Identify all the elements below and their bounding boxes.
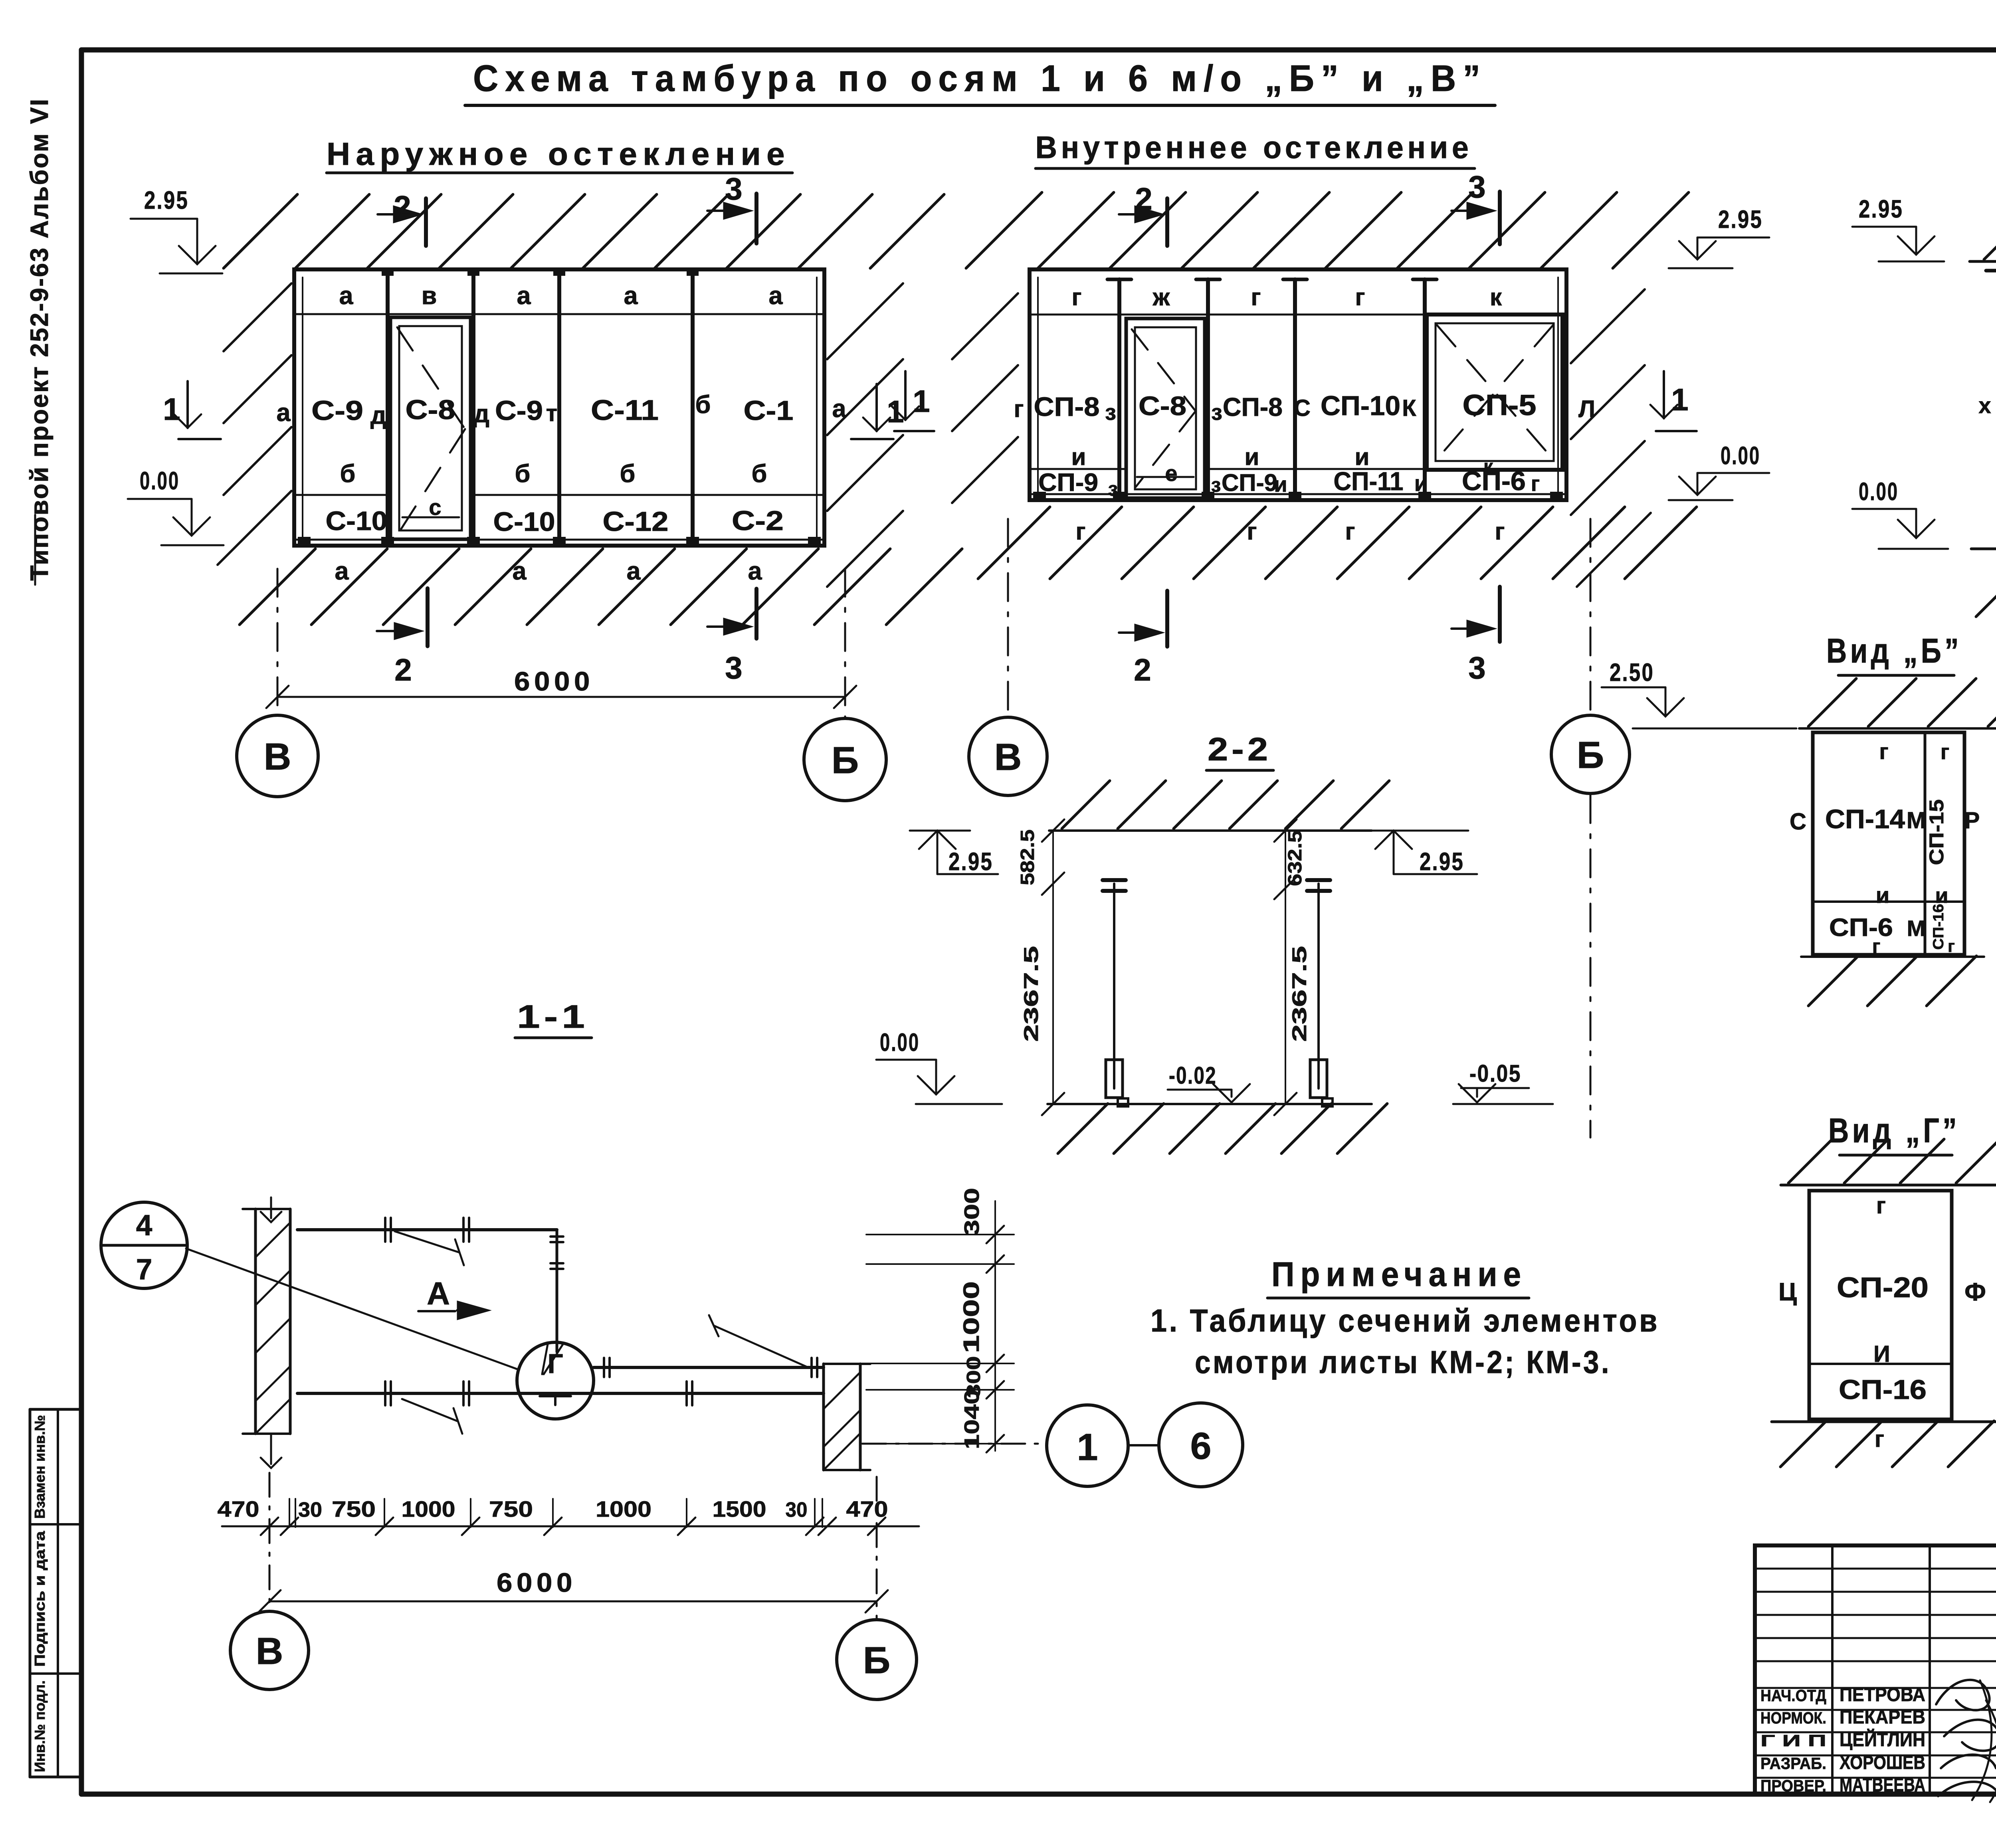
svg-text:г: г — [1355, 284, 1365, 311]
svg-text:г: г — [1076, 518, 1086, 545]
door C-8 outer — [390, 317, 471, 539]
section mark 1 left — [186, 381, 189, 428]
axis circle B top — [804, 718, 886, 801]
svg-text:а: а — [748, 557, 762, 585]
axis circle 1 — [1047, 1405, 1128, 1486]
svg-text:1: 1 — [1077, 1426, 1098, 1468]
inner door C-8 inner frame — [1135, 327, 1196, 489]
plan axis line B — [876, 1477, 878, 1619]
2-2 elevation 2.95 right — [1366, 830, 1468, 832]
svg-text:а: а — [626, 557, 641, 585]
svg-text:В: В — [994, 736, 1022, 778]
svg-text:и: и — [1274, 473, 1287, 497]
svg-text:а: а — [832, 395, 846, 423]
svg-text:В: В — [264, 736, 291, 778]
svg-text:С-8: С-8 — [406, 394, 455, 425]
svg-text:С-11: С-11 — [591, 395, 659, 426]
svg-text:0.00: 0.00 — [1859, 478, 1899, 506]
svg-text:2: 2 — [1134, 652, 1151, 687]
svg-text:2.95: 2.95 — [948, 848, 993, 876]
svg-text:-0.05: -0.05 — [1469, 1060, 1521, 1087]
plan axis circle V — [230, 1611, 309, 1690]
svg-text:В: В — [256, 1630, 283, 1672]
svg-text:СП-9: СП-9 — [1038, 469, 1098, 497]
svg-text:2.95: 2.95 — [144, 186, 189, 214]
svg-text:750: 750 — [332, 1496, 376, 1522]
svg-text:СП-14: СП-14 — [1825, 804, 1905, 834]
svg-text:632.5: 632.5 — [1285, 830, 1306, 886]
svg-text:Схема тамбура по осям 1 и 6 м/: Схема тамбура по осям 1 и 6 м/о „Б” и „В… — [473, 57, 1487, 99]
svg-text:470: 470 — [846, 1496, 888, 1522]
plan lower glazing line — [297, 1392, 824, 1395]
svg-text:а: а — [276, 399, 291, 427]
inner glazing wall hatch right — [1571, 289, 1651, 587]
svg-text:з: з — [1108, 478, 1118, 500]
svg-text:РАЗРАБ.: РАЗРАБ. — [1760, 1754, 1826, 1773]
svg-text:смотри листы КМ-2; КМ-3.: смотри листы КМ-2; КМ-3. — [1195, 1344, 1611, 1380]
svg-text:1500: 1500 — [713, 1496, 766, 1522]
svg-text:г: г — [1251, 284, 1261, 311]
svg-text:а: а — [517, 282, 531, 310]
2-2 ceiling line — [1049, 829, 1372, 832]
svg-text:1: 1 — [163, 392, 180, 427]
svg-text:е: е — [1165, 461, 1177, 486]
inner glazing mullions — [1117, 279, 1121, 499]
title block signatures scribble — [1936, 1680, 1996, 1796]
axis lines inner glazing — [1007, 519, 1009, 716]
title block left table lines — [1755, 1568, 1996, 1570]
view B frame — [1813, 732, 1964, 955]
plan axis line V — [269, 1473, 271, 1611]
svg-text:г: г — [1879, 739, 1888, 764]
svg-text:1000: 1000 — [402, 1496, 455, 1522]
svg-text:Примечание: Примечание — [1271, 1255, 1527, 1294]
outer glazing top transom line — [294, 313, 824, 315]
svg-text:1: 1 — [887, 394, 904, 429]
view A ceiling line — [1970, 260, 1996, 263]
door C-8 swing dashes — [397, 327, 465, 529]
leader 4/7 to node G — [186, 1248, 517, 1369]
svg-text:г: г — [1072, 284, 1082, 311]
svg-text:т: т — [546, 400, 557, 426]
svg-text:30: 30 — [298, 1498, 322, 1522]
plan axis circle B — [837, 1620, 917, 1700]
svg-text:1-1: 1-1 — [517, 999, 589, 1035]
view B ceiling hatch — [1808, 679, 1996, 726]
svg-text:ж: ж — [1152, 284, 1170, 311]
svg-text:г: г — [1948, 937, 1955, 956]
view A ceiling hatch — [1984, 206, 1996, 259]
inner glazing frame — [1030, 269, 1566, 500]
svg-text:з: з — [1211, 474, 1221, 496]
plan upper right leader — [715, 1326, 806, 1367]
svg-text:2-2: 2-2 — [1208, 731, 1271, 768]
outer glazing mullion feet — [298, 537, 311, 546]
svg-text:Р: Р — [1964, 807, 1980, 833]
svg-text:г: г — [1875, 1426, 1884, 1452]
svg-text:750: 750 — [489, 1496, 533, 1522]
svg-text:а: а — [768, 282, 783, 310]
svg-text:СП-10: СП-10 — [1321, 390, 1400, 421]
svg-text:б: б — [620, 460, 636, 488]
axis circle B inner — [1551, 715, 1630, 793]
node G circle — [517, 1342, 594, 1419]
svg-text:к: к — [1483, 456, 1493, 477]
svg-text:М: М — [1907, 916, 1926, 941]
window SP-5 frame — [1427, 315, 1562, 470]
svg-text:а: а — [335, 557, 349, 585]
axis line below B inner — [1590, 795, 1592, 1138]
svg-text:а: а — [339, 282, 353, 310]
inner door C-8 swing dashes — [1132, 329, 1196, 487]
2-2 elevation 2.95 left — [910, 830, 970, 832]
svg-text:С-9: С-9 — [311, 395, 363, 426]
svg-text:Б: Б — [863, 1639, 890, 1682]
svg-text:С-2: С-2 — [732, 505, 784, 536]
axis lines outer glazing — [277, 569, 279, 714]
svg-text:а: а — [624, 282, 638, 310]
view B floor hatch — [1808, 956, 1976, 1006]
svg-text:х: х — [1978, 393, 1991, 418]
svg-text:и: и — [1355, 443, 1370, 470]
svg-text:2.95: 2.95 — [1859, 195, 1903, 223]
svg-text:б: б — [340, 460, 356, 488]
svg-text:МАТВЕЕВА: МАТВЕЕВА — [1840, 1775, 1925, 1796]
title block outline — [1755, 1545, 1996, 1794]
view G ceiling hatch — [1788, 1139, 1996, 1183]
section mark 2 bottom — [426, 588, 430, 646]
inner glazing wall hatch bottom — [978, 507, 1697, 579]
door C-8 inner frame — [399, 326, 462, 530]
svg-text:2: 2 — [394, 189, 411, 224]
svg-text:1. Таблицу сечений элементов: 1. Таблицу сечений элементов — [1150, 1303, 1659, 1338]
svg-text:С-1: С-1 — [744, 395, 794, 426]
svg-text:С-10: С-10 — [326, 506, 388, 536]
inner section mark 2 top — [1165, 198, 1169, 246]
view B floor line — [1801, 956, 1984, 958]
svg-text:И: И — [1873, 1341, 1890, 1367]
svg-text:з: з — [1105, 400, 1116, 425]
2-2 right strut — [1317, 884, 1320, 1088]
svg-text:г: г — [1495, 518, 1505, 545]
svg-text:СП-5: СП-5 — [1463, 389, 1537, 421]
inner glazing wall hatch left — [952, 293, 1018, 503]
inner glazing wall hatch top — [966, 192, 1689, 268]
left sidebar boxes — [29, 1409, 32, 1777]
svg-text:и: и — [1876, 882, 1889, 908]
svg-text:б: б — [752, 460, 767, 488]
inner section mark 1 left — [904, 371, 907, 420]
axis circle V inner — [969, 717, 1047, 795]
svg-text:1: 1 — [913, 384, 930, 419]
svg-text:С-9: С-9 — [495, 395, 543, 426]
plan upper right glazing line — [594, 1366, 824, 1369]
svg-text:Внутреннее остекление: Внутреннее остекление — [1036, 130, 1473, 165]
svg-text:2: 2 — [1135, 181, 1152, 216]
svg-text:и: и — [1245, 443, 1259, 470]
svg-text:Типовой проект 252-9-63 Альбом: Типовой проект 252-9-63 Альбом VI — [26, 98, 53, 581]
window SP-5 opening dashes — [1437, 325, 1553, 459]
plan outer glazing leader — [395, 1231, 459, 1252]
svg-text:СП-15: СП-15 — [1925, 799, 1948, 865]
plan lower glazing leader — [402, 1399, 458, 1421]
svg-text:Инв.№ подл.: Инв.№ подл. — [32, 1680, 48, 1772]
svg-text:1040: 1040 — [960, 1389, 984, 1449]
axis circle B(V) top — [237, 715, 318, 797]
inner section mark 3 bottom — [1498, 587, 1502, 642]
svg-text:Взамен инв.№: Взамен инв.№ — [32, 1415, 48, 1519]
svg-text:3: 3 — [1468, 650, 1485, 685]
svg-text:С-10: С-10 — [493, 507, 555, 537]
svg-text:С: С — [1294, 395, 1311, 421]
svg-text:СП-16: СП-16 — [1930, 904, 1946, 950]
svg-text:ПЕКАРЕВ: ПЕКАРЕВ — [1840, 1707, 1925, 1728]
svg-text:ХОРОШЕВ: ХОРОШЕВ — [1840, 1752, 1925, 1773]
inner glazing mullion feet — [1033, 492, 1046, 500]
2-2 floor hatch — [1058, 1104, 1387, 1154]
svg-text:6: 6 — [1190, 1425, 1212, 1467]
svg-text:СП-8: СП-8 — [1223, 392, 1283, 421]
plan outer glazing line — [297, 1228, 557, 1231]
view G frame — [1809, 1191, 1952, 1419]
svg-text:582.5: 582.5 — [1017, 829, 1038, 885]
svg-text:С: С — [1790, 809, 1806, 835]
svg-text:К: К — [1402, 395, 1416, 421]
outer glazing bottom transom line — [294, 494, 390, 496]
inner section mark 1 right — [1663, 371, 1665, 418]
svg-text:ПРОВЕР.: ПРОВЕР. — [1760, 1777, 1826, 1795]
2-2 left dim line — [1052, 831, 1054, 1104]
svg-text:Л: Л — [1578, 396, 1595, 422]
plan right wall — [822, 1364, 825, 1470]
page frame — [81, 47, 1996, 53]
svg-text:Наружное остекление: Наружное остекление — [327, 136, 790, 172]
svg-text:0.00: 0.00 — [1721, 442, 1760, 470]
svg-text:470: 470 — [218, 1496, 259, 1522]
svg-text:б: б — [515, 460, 531, 488]
svg-text:НАЧ.ОТД: НАЧ.ОТД — [1760, 1686, 1826, 1705]
node G strut V — [542, 1344, 563, 1374]
view A floor hatch — [1976, 549, 1996, 617]
svg-text:г: г — [1876, 1193, 1886, 1219]
plan corner post line — [556, 1230, 558, 1352]
svg-text:1: 1 — [1671, 382, 1688, 417]
svg-text:30: 30 — [786, 1498, 808, 1522]
svg-text:СП-6: СП-6 — [1829, 914, 1893, 942]
svg-text:в: в — [422, 282, 437, 310]
outer glazing mullions — [386, 271, 390, 544]
svg-text:г: г — [1014, 396, 1024, 422]
svg-text:д: д — [370, 402, 386, 429]
axis row line 1-6 — [862, 1443, 1045, 1445]
svg-text:ЦЕЙТЛИН: ЦЕЙТЛИН — [1840, 1729, 1925, 1751]
svg-text:2.50: 2.50 — [1610, 659, 1654, 687]
svg-text:с: с — [429, 495, 441, 520]
svg-text:а: а — [512, 557, 527, 585]
svg-text:ПЕТРОВА: ПЕТРОВА — [1840, 1684, 1925, 1706]
svg-text:3: 3 — [1468, 169, 1485, 204]
svg-text:СП-11: СП-11 — [1334, 467, 1404, 496]
svg-text:1000: 1000 — [596, 1496, 651, 1522]
section mark 3 bottom — [754, 589, 758, 639]
section mark 2 top — [424, 198, 428, 246]
svg-text:0.00: 0.00 — [140, 467, 180, 495]
plan left wall — [254, 1209, 257, 1434]
plan wall arrows — [270, 1197, 272, 1218]
svg-text:3: 3 — [725, 171, 742, 206]
svg-text:з: з — [1211, 400, 1222, 425]
2-2 left strut — [1113, 884, 1115, 1088]
svg-text:д: д — [473, 400, 489, 428]
svg-text:С-8: С-8 — [1139, 391, 1186, 421]
svg-text:Ц: Ц — [1778, 1278, 1797, 1306]
svg-text:к: к — [1490, 284, 1502, 311]
svg-text:Ф: Ф — [1964, 1278, 1986, 1306]
svg-text:-0.02: -0.02 — [1169, 1062, 1217, 1089]
section mark 1 right — [875, 384, 878, 431]
svg-text:6000: 6000 — [514, 667, 594, 696]
section mark 3 top — [754, 194, 758, 243]
svg-text:и: и — [1414, 471, 1428, 496]
inner glazing bottom transom line — [1030, 468, 1126, 470]
inner section mark 3 top — [1498, 192, 1502, 244]
svg-text:6000: 6000 — [497, 1568, 576, 1598]
svg-text:Г И П: Г И П — [1760, 1731, 1826, 1750]
svg-text:г: г — [1872, 935, 1881, 958]
outer glazing mullion heads — [382, 269, 394, 276]
svg-text:4: 4 — [136, 1209, 152, 1242]
svg-text:3: 3 — [725, 650, 742, 685]
view A floor line — [1971, 548, 1996, 550]
svg-text:г: г — [1247, 518, 1257, 545]
view B transom line — [1813, 900, 1964, 903]
2-2 ceiling hatch — [1062, 781, 1389, 829]
svg-text:Вид „Б”: Вид „Б” — [1826, 632, 1962, 670]
plan right dim chain — [994, 1201, 996, 1451]
svg-text:СП-8: СП-8 — [1034, 392, 1100, 422]
plan dim extension lines — [289, 1499, 290, 1527]
outer glazing wall hatch right jamb — [827, 283, 903, 587]
svg-text:б: б — [695, 391, 711, 419]
view G ceiling line — [1781, 1184, 1996, 1187]
svg-text:7: 7 — [136, 1253, 152, 1286]
view G floor hatch — [1780, 1421, 1996, 1467]
dimension 6000 top — [277, 696, 845, 698]
svg-text:2.95: 2.95 — [1718, 206, 1763, 233]
svg-text:г: г — [1531, 472, 1540, 496]
outer glazing frame — [294, 269, 824, 546]
svg-text:СП-9: СП-9 — [1222, 469, 1277, 496]
svg-text:СП-20: СП-20 — [1837, 1272, 1929, 1304]
outer glazing wall hatch left jamb — [218, 283, 291, 565]
outer glazing wall hatch bottom — [240, 549, 962, 625]
svg-text:г: г — [1345, 518, 1355, 545]
svg-text:2: 2 — [394, 652, 412, 687]
svg-text:СП-6: СП-6 — [1462, 466, 1526, 496]
svg-text:Подпись и дата: Подпись и дата — [32, 1531, 48, 1667]
axis circle 6 — [1159, 1403, 1243, 1487]
inner section mark 2 bottom — [1165, 591, 1169, 647]
inner door C-8 outer — [1126, 319, 1205, 498]
plan small dimension line — [222, 1525, 919, 1527]
detail circle 4/7 — [101, 1202, 187, 1288]
svg-text:1000: 1000 — [958, 1281, 984, 1353]
view G floor line — [1772, 1421, 1996, 1423]
svg-text:А: А — [427, 1276, 450, 1311]
svg-text:2367.5: 2367.5 — [1020, 946, 1042, 1042]
inner glazing top transom line — [1030, 314, 1566, 316]
view B ceiling line — [1799, 727, 1996, 730]
outer glazing wall hatch top — [224, 194, 944, 268]
2-2 floor line — [1048, 1103, 1372, 1105]
view G transom line — [1809, 1363, 1952, 1365]
svg-text:С-12: С-12 — [603, 506, 669, 537]
svg-text:2.95: 2.95 — [1420, 848, 1464, 876]
2-2 right dim line — [1285, 831, 1286, 1104]
svg-text:и: и — [1071, 443, 1086, 470]
svg-text:Б: Б — [1577, 734, 1604, 776]
svg-text:2367.5: 2367.5 — [1288, 946, 1311, 1042]
svg-text:М: М — [1907, 807, 1926, 833]
svg-text:г: г — [1941, 740, 1950, 764]
svg-text:СП-16: СП-16 — [1839, 1374, 1927, 1405]
svg-text:НОРМОК.: НОРМОК. — [1760, 1709, 1826, 1727]
svg-text:0.00: 0.00 — [880, 1029, 920, 1057]
svg-text:300: 300 — [960, 1188, 984, 1236]
plan dimension 6000 — [269, 1601, 877, 1603]
svg-text:Б: Б — [832, 739, 859, 782]
